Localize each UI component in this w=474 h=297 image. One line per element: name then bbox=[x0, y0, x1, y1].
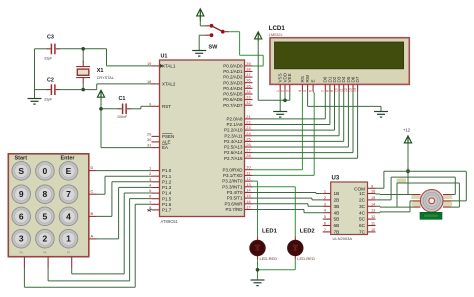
svg-text:16: 16 bbox=[371, 189, 375, 194]
svg-text:33pF: 33pF bbox=[44, 57, 53, 61]
svg-text:29: 29 bbox=[147, 131, 151, 136]
svg-text:2: 2 bbox=[281, 90, 285, 92]
svg-text:12: 12 bbox=[371, 214, 375, 219]
svg-text:37: 37 bbox=[246, 72, 250, 77]
svg-text:23: 23 bbox=[246, 125, 250, 130]
svg-text:6: 6 bbox=[309, 90, 313, 92]
svg-text:E: E bbox=[66, 166, 72, 176]
mcu U1 left pin stubs and labels bbox=[147, 61, 176, 213]
svg-text:14: 14 bbox=[353, 88, 357, 92]
wire P3.3 to LED2 bbox=[253, 187, 296, 236]
svg-text:P1.6: P1.6 bbox=[162, 202, 172, 207]
svg-text:6: 6 bbox=[19, 211, 24, 221]
wire LED1 to ground bbox=[257, 259, 259, 280]
svg-text:P0.7/AD7: P0.7/AD7 bbox=[223, 103, 243, 108]
svg-text:VEE: VEE bbox=[287, 73, 292, 82]
svg-text:39: 39 bbox=[246, 61, 250, 66]
junction +12 COM bbox=[406, 169, 410, 173]
svg-text:3C: 3C bbox=[359, 204, 366, 209]
svg-text:15: 15 bbox=[371, 195, 375, 200]
svg-text:P1.4: P1.4 bbox=[162, 191, 172, 196]
svg-text:4: 4 bbox=[298, 90, 302, 92]
svg-text:1: 1 bbox=[149, 166, 151, 171]
mcu U1 XTAL1 clock marker bbox=[160, 64, 163, 68]
junction crystal top bbox=[81, 47, 85, 51]
svg-text:P0.5/AD5: P0.5/AD5 bbox=[223, 92, 243, 97]
svg-text:9: 9 bbox=[330, 90, 334, 92]
svg-text:XTAL1: XTAL1 bbox=[162, 64, 176, 69]
svg-text:5B: 5B bbox=[334, 217, 340, 222]
wire keypad row B to P1.2 bbox=[97, 182, 152, 217]
svg-text:32: 32 bbox=[246, 100, 250, 105]
svg-text:P0.4/AD4: P0.4/AD4 bbox=[223, 86, 243, 91]
svg-text:RW: RW bbox=[305, 74, 310, 82]
svg-text:Enter: Enter bbox=[61, 156, 76, 162]
svg-text:5: 5 bbox=[43, 211, 48, 221]
driver U3 ULN2003A bbox=[331, 176, 376, 242]
driver U3 input/output pins bbox=[323, 189, 376, 235]
wire keypad col3 to P1.4 bbox=[72, 193, 152, 274]
svg-text:P6: P6 bbox=[43, 250, 47, 254]
svg-text:3: 3 bbox=[149, 177, 151, 182]
svg-text:1: 1 bbox=[324, 189, 326, 194]
svg-text:19: 19 bbox=[147, 61, 151, 66]
svg-text:P1.7: P1.7 bbox=[162, 208, 172, 213]
svg-text:10: 10 bbox=[335, 88, 339, 92]
wire keypad col2 to P1.5 bbox=[48, 199, 151, 281]
svg-text:CRYSTAL: CRYSTAL bbox=[97, 76, 114, 80]
svg-text:AT89C51: AT89C51 bbox=[161, 219, 179, 224]
svg-text:P2.6/A14: P2.6/A14 bbox=[224, 150, 243, 155]
svg-text:25: 25 bbox=[246, 136, 250, 141]
ground GND5 (LEDs) bbox=[251, 280, 265, 286]
svg-text:P3.1/TXD: P3.1/TXD bbox=[223, 173, 243, 178]
wire keypad row A to P1.3 bbox=[97, 187, 152, 239]
svg-text:17: 17 bbox=[246, 205, 250, 210]
svg-text:4B: 4B bbox=[334, 210, 340, 215]
wire +12 to motor MR (right loop) bbox=[408, 171, 466, 201]
svg-text:3B: 3B bbox=[334, 204, 340, 209]
svg-text:3: 3 bbox=[324, 201, 326, 206]
svg-text:P7: P7 bbox=[67, 250, 71, 254]
junction LED ground bbox=[256, 268, 260, 272]
wire keypad col1 to P1.6 bbox=[24, 204, 151, 287]
wire LCD VSS to ground bbox=[279, 92, 281, 112]
svg-text:+12: +12 bbox=[403, 128, 411, 133]
svg-text:PSEN: PSEN bbox=[162, 134, 174, 139]
capacitor C2 bbox=[44, 78, 60, 102]
wire crystal vertical bbox=[82, 49, 84, 90]
svg-text:P1.2: P1.2 bbox=[162, 179, 172, 184]
ground GND2 (switch) bbox=[192, 51, 206, 57]
svg-text:U1: U1 bbox=[161, 54, 168, 60]
svg-text:2B: 2B bbox=[334, 198, 340, 203]
svg-text:P0.6/AD6: P0.6/AD6 bbox=[223, 97, 243, 102]
wire VDD rail bbox=[258, 39, 290, 100]
svg-text:ULN2003A: ULN2003A bbox=[333, 236, 353, 241]
svg-text:9: 9 bbox=[149, 101, 151, 106]
svg-text:15: 15 bbox=[246, 193, 250, 198]
svg-text:38: 38 bbox=[246, 67, 250, 72]
svg-text:P3.3/INT1: P3.3/INT1 bbox=[222, 184, 243, 189]
wire U3 4C to motor ML bbox=[376, 201, 414, 213]
svg-text:C1: C1 bbox=[119, 96, 126, 102]
svg-text:22: 22 bbox=[246, 120, 250, 125]
power +5V arrow (LCD VDD) bbox=[255, 32, 262, 41]
svg-text:LED-RED: LED-RED bbox=[297, 256, 315, 261]
svg-text:P2.2/A10: P2.2/A10 bbox=[224, 128, 243, 133]
svg-text:P0.2/AD2: P0.2/AD2 bbox=[223, 75, 243, 80]
svg-text:1: 1 bbox=[66, 234, 71, 244]
svg-text:LED-RED: LED-RED bbox=[260, 256, 278, 261]
wire P3.4 to U3 1B bbox=[253, 193, 323, 194]
svg-text:28: 28 bbox=[246, 153, 250, 158]
wire LED2 to LED1 ground bbox=[258, 259, 296, 270]
wire LCD data bus P2.0-P2.7 to D0-D7 bbox=[253, 92, 358, 159]
svg-text:X1: X1 bbox=[97, 68, 104, 74]
svg-text:21: 21 bbox=[246, 114, 250, 119]
svg-text:5C: 5C bbox=[359, 217, 366, 222]
svg-text:33: 33 bbox=[246, 95, 250, 100]
wire C3 left to ground vertical bbox=[34, 49, 36, 98]
svg-text:9: 9 bbox=[19, 189, 24, 199]
svg-text:P1.0: P1.0 bbox=[162, 168, 172, 173]
keypad column pin stubs bbox=[24, 257, 71, 268]
svg-text:S: S bbox=[18, 166, 24, 176]
keypad KP1 bbox=[8, 154, 89, 257]
svg-text:P2.7/A15: P2.7/A15 bbox=[224, 156, 243, 161]
svg-text:P3.2/INT0: P3.2/INT0 bbox=[222, 179, 243, 184]
wire P3.6 to U3 3B bbox=[253, 204, 323, 207]
svg-text:13: 13 bbox=[371, 208, 375, 213]
svg-text:U3: U3 bbox=[332, 176, 340, 182]
svg-text:35: 35 bbox=[246, 83, 250, 88]
svg-text:3: 3 bbox=[19, 234, 24, 244]
wire P3.2 to LED1 bbox=[253, 181, 258, 236]
svg-text:P2.0/A8: P2.0/A8 bbox=[226, 117, 243, 122]
svg-text:1C: 1C bbox=[359, 191, 366, 196]
mcu U1 right pin stubs and labels bbox=[222, 61, 252, 212]
ground GND1 (oscillator) bbox=[28, 99, 42, 105]
svg-text:18: 18 bbox=[147, 79, 151, 84]
keypad row pin stubs D C B A bbox=[89, 166, 97, 239]
svg-text:P1.5: P1.5 bbox=[162, 196, 172, 201]
svg-text:2: 2 bbox=[43, 234, 48, 244]
svg-text:P3.4/T0: P3.4/T0 bbox=[227, 190, 243, 195]
svg-text:P1.1: P1.1 bbox=[162, 174, 172, 179]
wire U3 1C to motor UL bbox=[376, 193, 414, 196]
svg-text:6C: 6C bbox=[359, 223, 366, 228]
svg-text:P3.7/RD: P3.7/RD bbox=[225, 207, 243, 212]
wire LCD RS to P3.0 bbox=[253, 92, 303, 170]
svg-text:P3.0/RXD: P3.0/RXD bbox=[222, 167, 243, 172]
svg-text:26: 26 bbox=[246, 142, 250, 147]
wire +12 stem to motor UL wire bbox=[407, 143, 409, 195]
wire keypad row D to P1.0 bbox=[97, 170, 152, 172]
wire switch output to P0.0 bbox=[228, 32, 263, 66]
svg-text:33pF: 33pF bbox=[44, 97, 53, 101]
svg-text:LM032L: LM032L bbox=[269, 32, 284, 37]
svg-text:36: 36 bbox=[246, 78, 250, 83]
svg-text:7: 7 bbox=[321, 90, 325, 92]
svg-text:16: 16 bbox=[246, 199, 250, 204]
wire P3.7 to U3 4B bbox=[253, 210, 323, 213]
wire U3 2C to motor UR bbox=[376, 177, 456, 200]
mcu U1 AT89C51 bbox=[160, 54, 245, 225]
lcd LCD1 pin stubs and labels bbox=[276, 72, 360, 92]
svg-text:11: 11 bbox=[371, 221, 375, 226]
svg-text:13: 13 bbox=[246, 182, 250, 187]
svg-text:C2: C2 bbox=[47, 78, 54, 84]
svg-text:3: 3 bbox=[285, 90, 289, 92]
svg-text:P2.1/A9: P2.1/A9 bbox=[226, 122, 243, 127]
led LED2 LED-RED bbox=[288, 229, 315, 261]
wire LCD VDD VEE drop bbox=[285, 92, 290, 101]
lcd LCD1 LM032L bbox=[269, 25, 410, 84]
svg-text:8: 8 bbox=[43, 189, 48, 199]
svg-text:P5: P5 bbox=[20, 250, 24, 254]
svg-text:XTAL2: XTAL2 bbox=[162, 82, 176, 87]
wire P3.5 to U3 2B bbox=[253, 198, 323, 200]
mcu U1 P1.7 no-connect marker bbox=[148, 209, 152, 212]
wire keypad row C to P1.1 bbox=[97, 176, 152, 194]
svg-text:D7: D7 bbox=[355, 76, 360, 82]
wire C2 row bbox=[35, 84, 152, 90]
motor M1 coil bars bbox=[397, 178, 453, 206]
svg-text:2: 2 bbox=[324, 195, 326, 200]
svg-text:5: 5 bbox=[303, 90, 307, 92]
svg-text:2C: 2C bbox=[359, 198, 366, 203]
svg-text:7C: 7C bbox=[359, 230, 366, 235]
svg-text:6: 6 bbox=[149, 194, 151, 199]
junction VDD bbox=[283, 99, 287, 103]
svg-text:LED1: LED1 bbox=[262, 229, 278, 235]
svg-text:4: 4 bbox=[66, 211, 71, 221]
svg-text:EA: EA bbox=[162, 145, 168, 150]
svg-text:P0.0/AD0: P0.0/AD0 bbox=[223, 64, 243, 69]
svg-text:8: 8 bbox=[326, 90, 330, 92]
svg-text:SW: SW bbox=[209, 45, 219, 51]
svg-text:7: 7 bbox=[149, 199, 151, 204]
crystal X1 bbox=[76, 61, 114, 83]
wire C3 row bbox=[35, 49, 152, 66]
svg-text:7: 7 bbox=[324, 227, 326, 232]
wire LCD RW to ground bbox=[308, 92, 381, 112]
svg-text:11: 11 bbox=[246, 170, 250, 175]
wire U3 3C to motor LL and LR branch bbox=[376, 183, 460, 207]
wire LCD E to P3.1 bbox=[253, 92, 315, 176]
svg-text:7: 7 bbox=[66, 189, 71, 199]
capacitor C3 bbox=[44, 35, 60, 61]
svg-text:12: 12 bbox=[344, 88, 348, 92]
svg-text:C3: C3 bbox=[47, 35, 54, 41]
svg-text:D: D bbox=[91, 166, 94, 170]
svg-text:P2.5/A13: P2.5/A13 bbox=[224, 145, 243, 150]
svg-text:1B: 1B bbox=[334, 191, 340, 196]
capacitor C1 bbox=[117, 96, 131, 119]
svg-text:5: 5 bbox=[149, 188, 151, 193]
motor M1 stepper bbox=[414, 190, 451, 220]
svg-text:1: 1 bbox=[276, 90, 280, 92]
junction crystal bottom bbox=[81, 88, 85, 92]
svg-text:12: 12 bbox=[246, 176, 250, 181]
svg-text:7B: 7B bbox=[334, 230, 340, 235]
wire U3 COM to +12 bbox=[376, 171, 409, 188]
svg-text:27: 27 bbox=[246, 148, 250, 153]
ground GND4 (LCD RW) bbox=[374, 112, 388, 118]
wire switch input bbox=[200, 21, 206, 26]
svg-text:5: 5 bbox=[324, 214, 326, 219]
power +5V arrow (switch top) bbox=[197, 9, 204, 21]
svg-text:P3.6/WR: P3.6/WR bbox=[224, 201, 243, 206]
power +5V arrow (RST/EA rail) bbox=[97, 90, 104, 99]
svg-text:2: 2 bbox=[149, 171, 151, 176]
led LED1 LED-RED bbox=[250, 229, 278, 261]
svg-text:100nF: 100nF bbox=[117, 115, 128, 119]
svg-text:6: 6 bbox=[324, 221, 326, 226]
ground GND3 (LCD VSS) bbox=[273, 112, 287, 118]
svg-text:ALE: ALE bbox=[162, 140, 171, 145]
svg-text:P3.5/T1: P3.5/T1 bbox=[227, 196, 243, 201]
svg-text:31: 31 bbox=[147, 143, 151, 148]
svg-text:0: 0 bbox=[43, 166, 48, 176]
junction C1 left bbox=[99, 107, 103, 111]
svg-text:6B: 6B bbox=[334, 223, 340, 228]
svg-text:P2.4/A12: P2.4/A12 bbox=[224, 139, 243, 144]
svg-text:P1.3: P1.3 bbox=[162, 185, 172, 190]
svg-text:11: 11 bbox=[339, 88, 343, 92]
svg-text:E: E bbox=[311, 79, 316, 82]
switch SW bbox=[206, 24, 229, 51]
svg-text:Start: Start bbox=[15, 156, 28, 162]
svg-text:LED2: LED2 bbox=[300, 229, 315, 235]
svg-text:P2.3/A11: P2.3/A11 bbox=[224, 133, 243, 138]
power +12 arrow bbox=[403, 128, 412, 144]
wire VCC vertical to C1 and EA bbox=[101, 97, 152, 147]
svg-text:C: C bbox=[91, 190, 94, 194]
wire switch lower throw to ground bbox=[199, 35, 206, 50]
svg-text:RST: RST bbox=[162, 104, 171, 109]
svg-text:13: 13 bbox=[349, 88, 353, 92]
svg-text:4C: 4C bbox=[359, 210, 366, 215]
svg-text:P0.3/AD3: P0.3/AD3 bbox=[223, 80, 243, 85]
svg-text:P0.1/AD1: P0.1/AD1 bbox=[223, 69, 243, 74]
